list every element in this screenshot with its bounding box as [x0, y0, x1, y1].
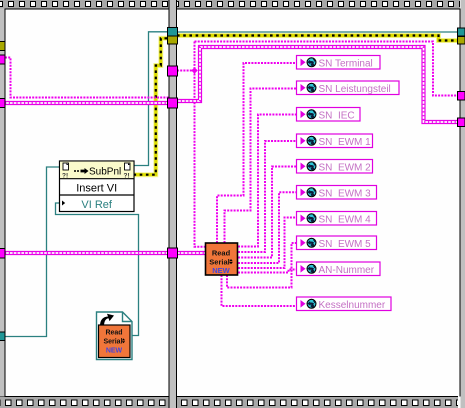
shared variable node SN EWM 1	[297, 134, 373, 148]
wire: string subVI to Kesselnummer	[222, 275, 297, 306]
wire: string subVI to SN EWM 2	[238, 167, 297, 258]
wire: string subVI to SN IEC	[238, 115, 297, 247]
wire: VI refnum from static VI reference to invoke node VI Ref input	[56, 203, 139, 336]
svg-text:SN EWM 3: SN EWM 3	[319, 188, 372, 199]
wire: refnum out of invoke node to middle tunnel	[134, 32, 169, 166]
wire: string subVI to SN EWM 3	[238, 192, 297, 263]
wire: error cluster from invoke node to middle tunnel	[134, 38, 169, 174]
wire: string subVI to SN Terminal	[217, 63, 297, 243]
middle case structure border	[169, 0, 178, 408]
svg-text:NEW: NEW	[212, 266, 230, 275]
static VI reference node (Read Serial NEW)	[97, 312, 133, 360]
svg-text:SubPnl: SubPnl	[89, 167, 121, 178]
wire: string subVI to SN EWM 5	[227, 243, 297, 288]
svg-text:SN EWM 1: SN EWM 1	[319, 137, 372, 148]
right case structure border	[460, 0, 465, 408]
flat sequence top border (film strip)	[0, 0, 460, 10]
tunnel: error cluster on left border	[0, 42, 5, 51]
svg-text:SN EWM 5: SN EWM 5	[319, 239, 372, 250]
wire: string from left tunnel down and across left frame	[5, 58, 169, 98]
tunnel: string on left border lower	[0, 99, 5, 108]
wire: string subVI to SN EWM 1	[238, 141, 297, 252]
tunnel: cluster on left border	[0, 249, 5, 259]
svg-text:SN Leistungsteil: SN Leistungsteil	[319, 84, 391, 95]
tunnel: error cluster on right border	[458, 37, 465, 45]
svg-text:VI Ref: VI Ref	[81, 199, 113, 211]
shared variable node SN EWM 3	[297, 186, 377, 200]
shared variable node Kesselnummer	[297, 297, 392, 311]
subVI Read Serial NEW	[206, 243, 238, 275]
svg-text:SN EWM 2: SN EWM 2	[319, 162, 372, 173]
shared variable node SN Terminal	[297, 56, 381, 70]
wire: VI refnum from left tunnel to invoke node reference in	[5, 167, 60, 337]
svg-text:Read: Read	[105, 330, 122, 337]
junction on string wire	[191, 67, 197, 73]
shared variable node SN EWM 5	[297, 236, 377, 250]
tunnel: string on right border	[458, 92, 465, 101]
svg-text:?!: ?!	[124, 173, 130, 180]
shared variable node SN EWM 2	[297, 160, 373, 174]
wire: cluster chain from left tunnel across both frames into subVI	[5, 251, 205, 255]
shared variable node SN Leistungsteil	[297, 81, 400, 95]
wire: chain from middle tunnel up and across to right tunnel	[177, 47, 459, 122]
shared variable node SN EWM 4	[297, 212, 377, 226]
svg-text:SN IEC: SN IEC	[319, 110, 355, 121]
shared variable node SN IEC	[297, 108, 361, 122]
wire: refnum across right frame to right tunnel	[177, 31, 459, 33]
svg-text:Kesselnummer: Kesselnummer	[319, 300, 386, 311]
tunnel: string on middle border	[168, 66, 178, 76]
tunnel: VI refnum on right border	[458, 28, 465, 36]
wire: string subVI to SN Leistungsteil	[225, 89, 298, 244]
wire: string array chain across left frame	[5, 101, 169, 105]
tunnel: string array on right border	[458, 118, 465, 127]
wire: string subVI to SN EWM 4	[238, 218, 297, 269]
tunnel: error cluster on middle border	[168, 36, 178, 44]
wire: string top run to right tunnel	[195, 42, 459, 96]
tunnel: string on left border	[0, 55, 5, 64]
svg-text:AN-Nummer: AN-Nummer	[319, 265, 375, 276]
wire: error cluster across right frame to right tunnel	[177, 36, 459, 41]
invoke node U1 SubPnl Insert VI	[60, 161, 135, 212]
wire: string trunk down into subVI input	[195, 42, 206, 247]
svg-text:Insert VI: Insert VI	[76, 183, 117, 195]
svg-text:NEW: NEW	[106, 348, 123, 355]
tunnel: VI refnum on left border	[0, 332, 5, 341]
left case structure border	[0, 9, 6, 397]
tunnel: VI refnum on middle border	[168, 28, 178, 37]
svg-text:SN EWM 4: SN EWM 4	[319, 214, 372, 225]
svg-text:Serial: Serial	[103, 339, 122, 346]
svg-text:Read: Read	[212, 249, 231, 258]
wire: string subVI to AN-Nummer	[238, 270, 297, 273]
svg-text:?!: ?!	[62, 173, 68, 180]
svg-text:SN Terminal: SN Terminal	[319, 58, 373, 69]
tunnel: cluster on middle border	[168, 248, 178, 258]
tunnel: string array on middle border	[168, 98, 178, 108]
shared variable node AN-Nummer	[297, 262, 381, 276]
flat sequence bottom border (film strip)	[0, 396, 458, 408]
wire: string from middle tunnel to junction	[177, 70, 195, 72]
